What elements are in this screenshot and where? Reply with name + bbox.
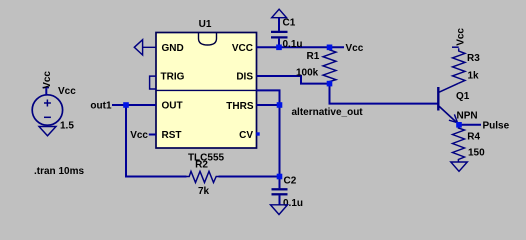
svg-text:0.1u: 0.1u	[283, 39, 303, 50]
transistor Q1 (NPN)	[438, 83, 459, 124]
junction at out1/OUT	[123, 102, 129, 108]
ground below source	[39, 127, 56, 136]
svg-text:U1: U1	[199, 19, 212, 30]
wire R2 right to C2 node	[219, 176, 280, 178]
svg-text:1k: 1k	[468, 70, 480, 81]
wire THRS pin	[257, 104, 280, 106]
svg-text:Vcc: Vcc	[456, 28, 467, 46]
svg-text:.tran 10ms: .tran 10ms	[34, 166, 84, 177]
svg-text:DIS: DIS	[236, 72, 253, 83]
svg-text:GND: GND	[162, 43, 184, 54]
ground below C2	[271, 205, 288, 215]
wire out1 node down to R2 row	[126, 105, 187, 177]
junction at R1 top	[327, 45, 333, 51]
flag out1 stub	[112, 104, 123, 106]
capacitor C2	[272, 177, 288, 205]
svg-text:RST: RST	[162, 130, 182, 141]
svg-text:R2: R2	[195, 160, 208, 171]
ground flag above C1 (flipped)	[272, 9, 287, 18]
flag Vcc rotated above source	[42, 71, 53, 95]
wire OUT pin to out1 node	[122, 104, 157, 106]
svg-text:alternative_out: alternative_out	[292, 107, 364, 118]
svg-text:TRIG: TRIG	[161, 72, 185, 83]
svg-text:Q1: Q1	[456, 91, 470, 102]
svg-text:NPN: NPN	[457, 111, 478, 122]
svg-text:THRS: THRS	[226, 101, 254, 112]
svg-text:7k: 7k	[198, 186, 210, 197]
junction at C1/VCC rail	[276, 45, 282, 51]
wire emitter to Pulse flag	[459, 124, 481, 126]
port bracket on TRIG	[150, 76, 157, 89]
wire divider stub to THRS/C2 column	[257, 90, 280, 176]
junction at C2 top	[277, 174, 283, 180]
pin CV unconnected dot	[256, 132, 259, 135]
svg-text:Vcc: Vcc	[42, 71, 53, 89]
op-amp U1 (TLC555 timer body)	[156, 33, 257, 149]
port flag on GND (left arrow)	[134, 40, 156, 55]
U1 internal divider line	[156, 89, 257, 91]
resistor R3	[453, 48, 466, 83]
svg-text:150: 150	[468, 148, 485, 159]
svg-text:OUT: OUT	[162, 101, 183, 112]
junction at Q1 emitter	[456, 122, 462, 128]
junction at THRS column	[277, 102, 283, 108]
svg-text:VCC: VCC	[232, 43, 253, 54]
wire DIS pin with jog to R1 bottom	[257, 76, 330, 84]
svg-text:100k: 100k	[296, 68, 319, 79]
resistor R4	[453, 125, 465, 162]
svg-text:1.5: 1.5	[60, 121, 74, 132]
junction at R1 bottom / DIS	[327, 81, 333, 87]
ground below R4	[451, 162, 468, 171]
capacitor C1	[271, 18, 288, 47]
resistor R2	[187, 171, 219, 182]
flag Vcc rotated above R3	[452, 28, 467, 48]
svg-text:C1: C1	[283, 18, 296, 29]
wire VCC pin to Vcc flag	[257, 46, 345, 48]
U1 top notch	[199, 33, 217, 45]
svg-text:out1: out1	[90, 101, 112, 112]
svg-text:Pulse: Pulse	[483, 121, 510, 132]
svg-text:Vcc: Vcc	[130, 130, 148, 141]
svg-text:CV: CV	[239, 130, 253, 141]
svg-text:R3: R3	[467, 53, 480, 64]
wire alternative_out: R1 bottom to Q1 base	[330, 84, 438, 104]
wire RST to Vcc label dash	[149, 134, 156, 136]
svg-text:R1: R1	[307, 51, 320, 62]
svg-text:Vcc: Vcc	[346, 43, 364, 54]
voltage source Vcc (V1)	[32, 95, 62, 125]
resistor R1	[323, 47, 336, 83]
svg-text:Vcc: Vcc	[58, 86, 76, 97]
svg-text:R4: R4	[467, 132, 480, 143]
svg-text:C2: C2	[284, 176, 297, 187]
